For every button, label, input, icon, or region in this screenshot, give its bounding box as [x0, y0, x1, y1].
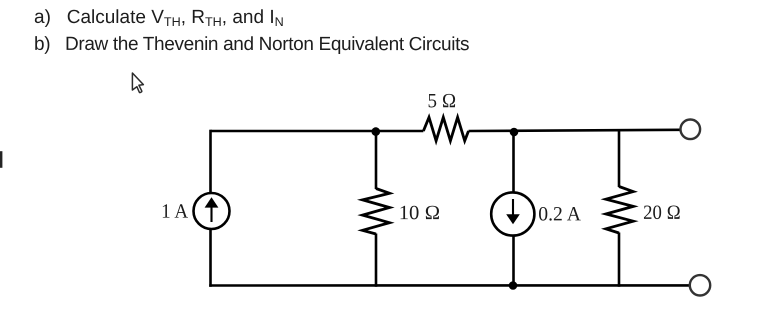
wire 0.2A vertical lower: [512, 236, 515, 287]
wire left vertical lower: [209, 229, 212, 287]
wire top horizontal left segment: [211, 130, 424, 133]
node dot bottom of I2: [509, 281, 518, 290]
svg-text:5 Ω: 5 Ω: [428, 90, 457, 112]
node dot top of I2: [510, 128, 519, 137]
wire 0.2A vertical upper: [512, 131, 515, 193]
current source I1 1A: [194, 193, 230, 229]
text line b: [34, 34, 469, 56]
resistor 5 ohm: [423, 117, 468, 141]
resistor 10 ohm: [363, 189, 390, 235]
mouse cursor: [132, 73, 143, 93]
label 20 ohm: [643, 202, 681, 224]
label 0.2 A: [538, 203, 581, 225]
label 1 A: [161, 201, 188, 223]
terminal a open circle top right: [681, 120, 701, 140]
wire top horizontal right segment: [469, 130, 681, 131]
left-edge artifact mark: [0, 151, 2, 168]
svg-text:10 Ω: 10 Ω: [399, 202, 441, 224]
text line a: [34, 7, 284, 29]
terminal b open circle bottom right: [690, 275, 710, 295]
wire middle vertical upper: [375, 131, 378, 189]
wire middle vertical lower: [375, 234, 378, 287]
label 5 ohm: [428, 90, 457, 112]
svg-text:0.2 A: 0.2 A: [538, 203, 581, 225]
wire 20 ohm vertical upper: [618, 130, 621, 187]
svg-text:20 Ω: 20 Ω: [643, 202, 681, 224]
current source I2 0.2A: [491, 192, 534, 235]
svg-text:1 A: 1 A: [161, 201, 188, 223]
node dot B top of 10 ohm: [372, 127, 381, 136]
resistor 20 ohm: [606, 187, 633, 234]
wire bottom horizontal: [209, 284, 690, 287]
wire 20 ohm vertical lower: [618, 233, 621, 287]
label 10 ohm: [399, 202, 441, 224]
wire left vertical upper: [209, 130, 212, 194]
